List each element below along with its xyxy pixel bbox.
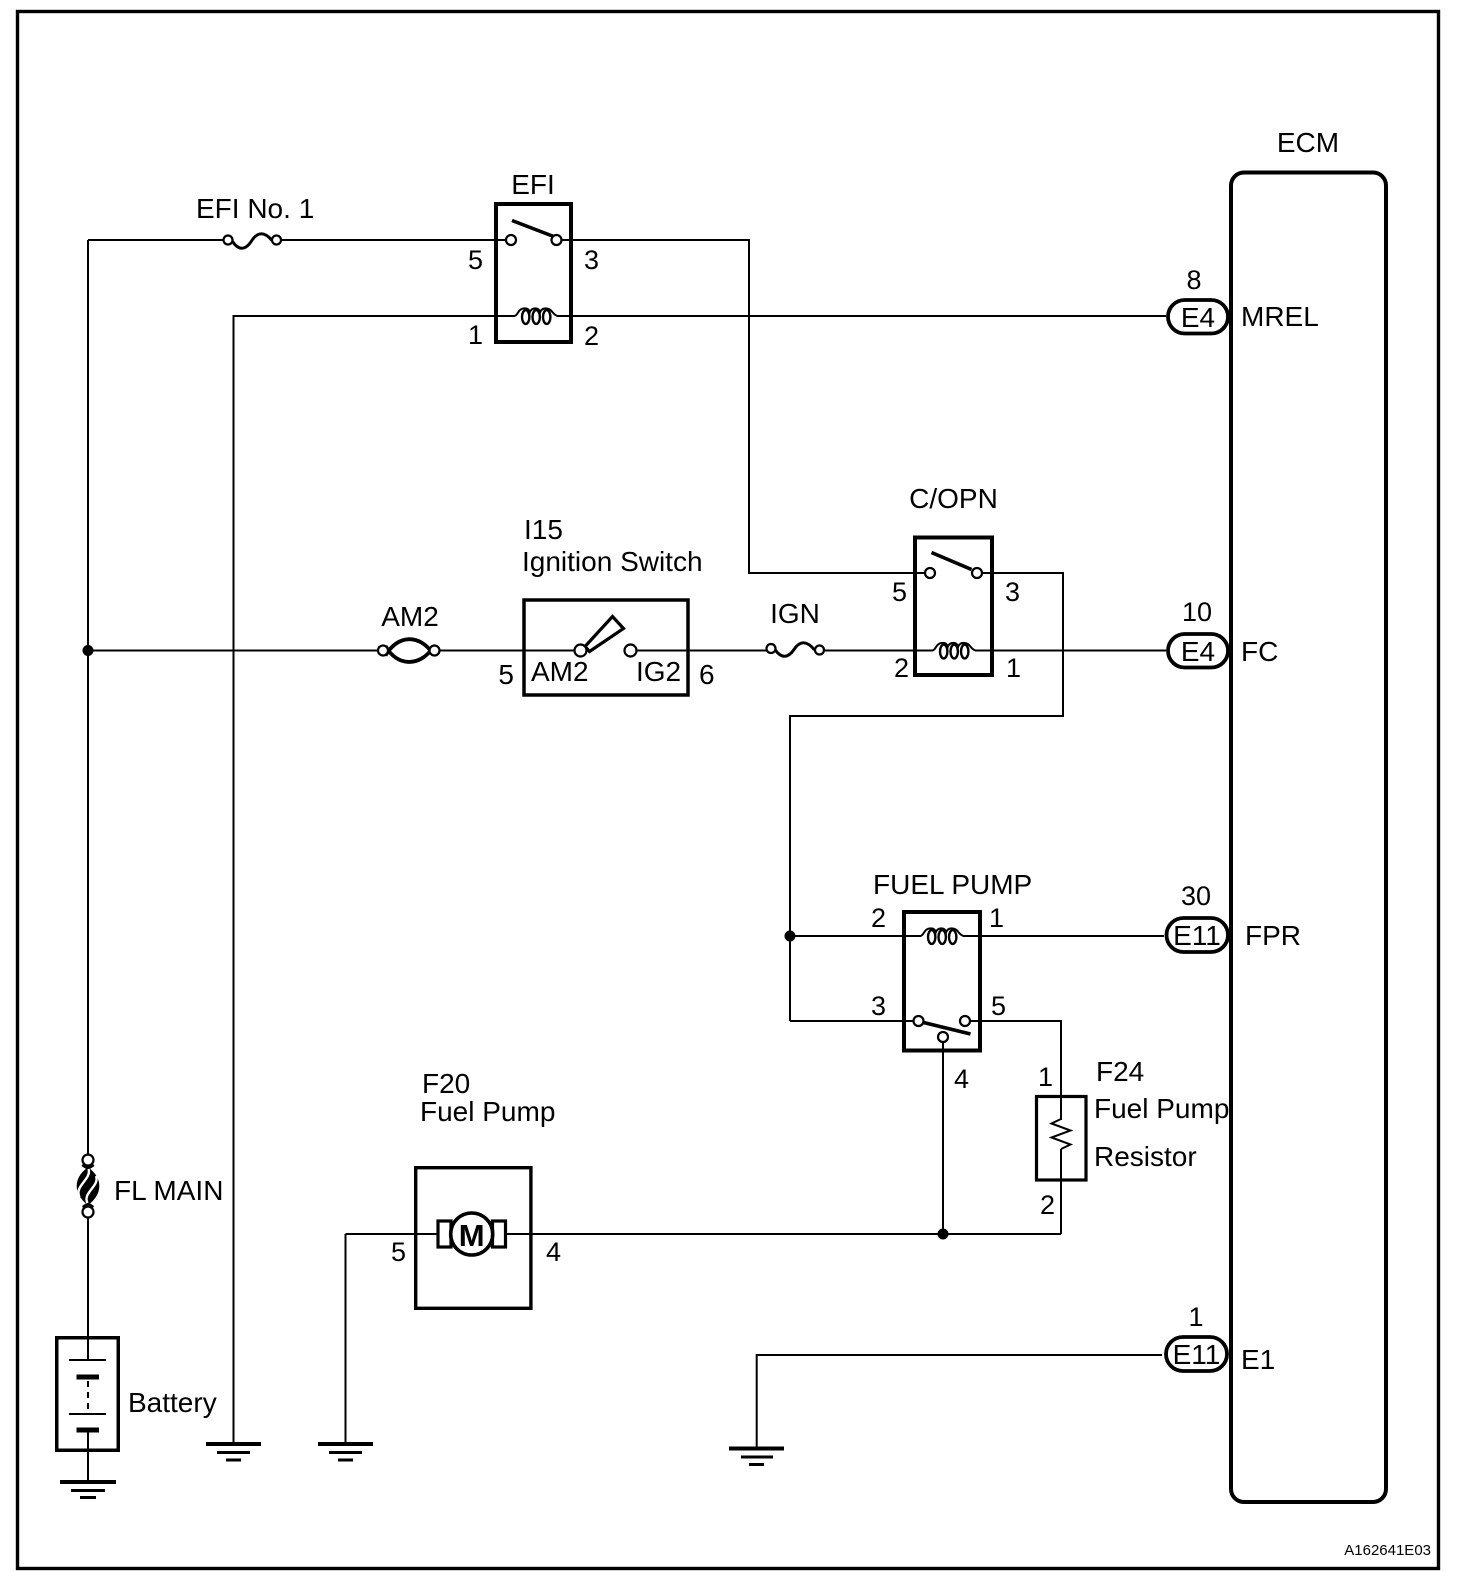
svg-text:4: 4: [546, 1237, 561, 1267]
svg-text:5: 5: [468, 245, 483, 275]
svg-text:5: 5: [498, 659, 514, 690]
node junction fuel pump coil branch: [785, 931, 796, 942]
svg-text:Battery: Battery: [128, 1387, 217, 1418]
svg-text:AM2: AM2: [381, 601, 439, 632]
svg-text:E1: E1: [1241, 1344, 1275, 1375]
svg-text:E11: E11: [1173, 1339, 1221, 1370]
ground battery: [60, 1482, 116, 1498]
svg-text:A162641E03: A162641E03: [1344, 1542, 1431, 1559]
svg-text:E4: E4: [1181, 302, 1215, 333]
wire IGN fuse to C/OPN coil: [824, 650, 913, 652]
fusible link AM2: [378, 601, 440, 662]
wire IG2 to IGN fuse: [637, 650, 767, 652]
svg-text:2: 2: [871, 903, 886, 933]
svg-text:5: 5: [391, 1237, 406, 1267]
svg-text:I15: I15: [524, 514, 563, 545]
svg-text:FUEL PUMP: FUEL PUMP: [873, 869, 1032, 900]
svg-text:FC: FC: [1241, 636, 1278, 667]
svg-text:2: 2: [584, 321, 599, 351]
svg-text:E4: E4: [1181, 636, 1215, 667]
connector E11 pin 30 FPR: [1167, 881, 1302, 952]
ECM box: [1231, 127, 1386, 1502]
svg-text:4: 4: [954, 1064, 969, 1094]
resistor F24 fuel pump resistor: [1037, 1056, 1230, 1220]
svg-text:1: 1: [1038, 1062, 1053, 1092]
connector E4 pin 8 MREL: [1168, 265, 1319, 334]
node junction motor row / pin 4: [938, 1229, 949, 1240]
svg-text:1: 1: [989, 903, 1004, 933]
svg-text:2: 2: [1040, 1190, 1055, 1220]
motor F20 fuel pump: [391, 1068, 561, 1308]
svg-text:6: 6: [699, 659, 715, 690]
wire E1 ground: [757, 1355, 1162, 1448]
svg-text:IG2: IG2: [636, 656, 681, 687]
wire FUEL PUMP coil pin 1 to FPR: [982, 935, 1164, 937]
wire EFI pin 3 to C/OPN pin 5: [561, 240, 926, 573]
svg-text:Fuel Pump: Fuel Pump: [420, 1096, 555, 1127]
wire EFI pin 2 to MREL: [573, 315, 1166, 317]
wire FL MAIN to battery: [87, 1218, 89, 1339]
svg-text:C/OPN: C/OPN: [909, 483, 998, 514]
svg-text:2: 2: [894, 653, 909, 683]
svg-text:3: 3: [1005, 577, 1020, 607]
connector E11 pin 1 E1: [1166, 1302, 1275, 1375]
wire branch to FUEL PUMP pin 3: [790, 1020, 914, 1022]
svg-text:1: 1: [1006, 653, 1021, 683]
wire fuse to EFI relay pin 5: [281, 239, 507, 241]
wire battery vertical upper: [87, 240, 89, 1155]
svg-text:Resistor: Resistor: [1094, 1141, 1197, 1172]
wire FUEL PUMP pin 4 down: [942, 1042, 944, 1234]
svg-text:10: 10: [1182, 597, 1212, 627]
wire motor row horizontal: [346, 1233, 1062, 1235]
wire branch to FUEL PUMP coil pin 2: [790, 935, 902, 937]
ground for E1: [729, 1449, 784, 1465]
svg-text:E11: E11: [1173, 920, 1221, 951]
svg-text:M: M: [459, 1218, 485, 1253]
wire FUEL PUMP pin 5 to resistor pin 1: [970, 1021, 1062, 1120]
svg-text:FL MAIN: FL MAIN: [114, 1175, 223, 1206]
fuse EFI No. 1: [196, 193, 314, 248]
svg-text:FPR: FPR: [1245, 920, 1301, 951]
svg-text:1: 1: [468, 320, 483, 350]
svg-text:EFI No. 1: EFI No. 1: [196, 193, 314, 224]
svg-text:5: 5: [892, 577, 907, 607]
svg-text:5: 5: [991, 991, 1006, 1021]
svg-text:F20: F20: [422, 1068, 470, 1099]
wire main row left: [88, 650, 379, 652]
svg-text:3: 3: [584, 245, 599, 275]
wire motor ground vertical: [345, 1234, 347, 1444]
svg-text:30: 30: [1181, 881, 1211, 911]
switch I15 ignition switch: [498, 514, 714, 695]
svg-text:MREL: MREL: [1241, 301, 1319, 332]
svg-text:Fuel Pump: Fuel Pump: [1094, 1093, 1229, 1124]
svg-text:AM2: AM2: [531, 656, 589, 687]
svg-text:EFI: EFI: [511, 169, 555, 200]
wire EFI coil feed vertical: [234, 316, 495, 1444]
wire C/OPN pin 3 to fuel pump relay branch: [790, 573, 1063, 1021]
wire C/OPN coil to FC: [994, 650, 1166, 652]
node junction battery feed / main row: [83, 645, 94, 656]
svg-text:ECM: ECM: [1277, 127, 1339, 158]
fusible link FL MAIN: [78, 1155, 223, 1218]
svg-text:F24: F24: [1096, 1056, 1144, 1087]
connector E4 pin 10 FC: [1168, 597, 1278, 668]
relay FUEL PUMP: [871, 869, 1032, 1094]
relay EFI: [468, 169, 599, 351]
ground for fuel pump motor: [318, 1444, 373, 1460]
svg-text:Ignition Switch: Ignition Switch: [522, 546, 703, 577]
ground for EFI relay coil line: [206, 1444, 261, 1460]
svg-text:IGN: IGN: [770, 598, 820, 629]
wire resistor pin 2 to motor row: [1060, 1182, 1062, 1234]
wire AM2 to ignition switch: [440, 650, 575, 652]
svg-text:1: 1: [1188, 1302, 1203, 1332]
svg-text:3: 3: [871, 991, 886, 1021]
battery: [57, 1338, 217, 1482]
svg-text:8: 8: [1186, 265, 1201, 295]
wire battery feed top horizontal left of fuse: [88, 239, 224, 241]
fuse IGN: [767, 598, 825, 656]
relay C/OPN: [892, 483, 1021, 683]
